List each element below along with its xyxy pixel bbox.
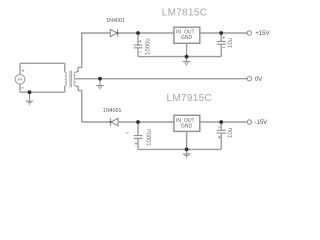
wire: top rail to diode — [82, 32, 110, 34]
svg-text:-15V: -15V — [255, 120, 268, 126]
terminal +15V circle — [247, 31, 251, 35]
capacitor C4 bottom lead — [220, 133, 222, 149]
capacitor C3 bottom lead — [137, 139, 139, 150]
wire: 0V line — [76, 78, 247, 80]
capacitor C4 10u top lead — [220, 122, 222, 130]
regulator U2 GND pin — [186, 131, 188, 149]
wire: primary top lead — [64, 63, 66, 72]
regulator U1 GND pin — [186, 43, 188, 56]
svg-text:1000u: 1000u — [147, 129, 153, 146]
terminal 0V circle — [247, 77, 251, 81]
transformer T1 core — [70, 71, 72, 88]
diode D1 apex junction — [117, 32, 119, 34]
label C4 minus — [218, 126, 220, 128]
wire: secondary top step — [76, 33, 82, 72]
svg-text:10u: 10u — [228, 128, 234, 138]
diode D2 1N4001 — [110, 118, 118, 126]
wire: diode to regulator IN bottom — [118, 121, 174, 123]
capacitor C3 plates — [134, 136, 143, 139]
capacitor C2 10u top lead — [220, 33, 222, 41]
wire: primary loop top — [20, 62, 65, 64]
wire: diode to regulator IN — [118, 32, 174, 34]
capacitor C1 1000u top lead — [137, 33, 139, 45]
AC source V1 lead top — [19, 63, 21, 74]
capacitor C2 plates — [217, 41, 226, 44]
AC source V1 circle — [15, 74, 25, 84]
capacitor C3 1000u top lead — [137, 122, 139, 135]
regulator U2 LM7915C box — [174, 115, 200, 131]
junction dot C4 top — [219, 120, 223, 124]
capacitor C1 plates — [134, 45, 143, 48]
wire: regulator OUT to +15V — [200, 32, 247, 34]
wire: secondary bottom step — [76, 86, 82, 122]
svg-text:1N4001: 1N4001 — [106, 18, 125, 24]
wire: bottom ground bus — [138, 148, 221, 150]
svg-text:+15V: +15V — [255, 31, 269, 37]
svg-text:1N4001: 1N4001 — [103, 108, 122, 114]
transformer T1 primary coil — [65, 72, 67, 85]
svg-text:0V: 0V — [255, 77, 262, 83]
capacitor C4 plates — [217, 130, 226, 133]
regulator U1 LM7815C box — [174, 27, 200, 43]
label C4 plus — [218, 136, 220, 138]
label C2 minus — [223, 47, 225, 49]
terminal -15V circle — [247, 120, 251, 124]
svg-text:LM7815C: LM7815C — [162, 8, 207, 19]
label source plus — [22, 70, 24, 72]
junction dot C2 top — [219, 31, 223, 35]
label source minus — [22, 87, 24, 89]
label C1 minus — [140, 51, 142, 53]
ground: bottom bus earth — [183, 149, 191, 158]
ground: 0V earth — [96, 79, 104, 90]
junction dot U2 GND — [185, 148, 189, 152]
AC source V1 lead bottom — [19, 84, 21, 92]
wire: primary loop bottom — [20, 91, 65, 93]
ground: top bus earth — [183, 57, 191, 66]
svg-text:GND: GND — [181, 124, 193, 130]
wire: top ground bus — [138, 56, 221, 58]
label C2 plus — [223, 37, 225, 39]
wire: primary bottom lead — [64, 86, 66, 93]
capacitor C1 bottom lead — [137, 48, 139, 56]
AC source V1 sine — [18, 78, 22, 80]
junction dot 0V earth — [98, 77, 102, 81]
ground: primary earth — [26, 92, 34, 105]
svg-text:GND: GND — [181, 35, 193, 41]
junction dot C1 top — [136, 31, 140, 35]
junction dot primary ground — [28, 90, 32, 94]
wire: regulator OUT to -15V — [200, 121, 247, 123]
svg-text:LM7915C: LM7915C — [167, 93, 212, 104]
diode D2 apex junction — [110, 121, 112, 123]
label C3 plus — [135, 143, 137, 145]
wire: bottom rail to diode — [82, 121, 110, 123]
diode D1 1N4001 — [110, 29, 117, 36]
label C1 plus — [139, 40, 141, 42]
junction dot U1 GND — [185, 55, 189, 59]
svg-text:10u: 10u — [228, 38, 234, 48]
svg-text:1000u: 1000u — [146, 38, 152, 55]
capacitor C2 bottom lead — [220, 45, 222, 57]
junction dot C3 top — [136, 120, 140, 124]
transformer T1 secondary coil — [74, 72, 76, 85]
label C3 minus — [126, 132, 128, 134]
